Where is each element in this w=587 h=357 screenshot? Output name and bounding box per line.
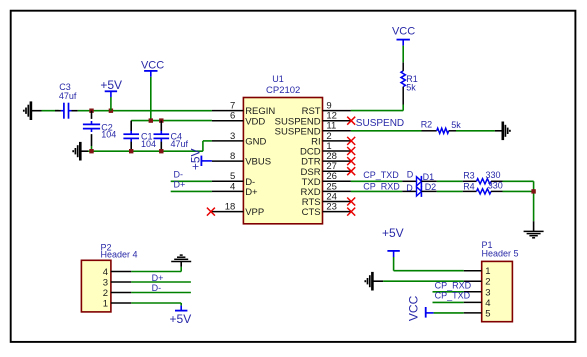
net label D+ (to IC) bbox=[174, 180, 186, 190]
svg-text:23: 23 bbox=[326, 202, 337, 213]
svg-text:8: 8 bbox=[230, 151, 235, 162]
node junction C2 bottom bbox=[89, 149, 93, 153]
no-connect X on pin 18 VPP bbox=[207, 208, 215, 216]
svg-text:104: 104 bbox=[141, 139, 156, 149]
svg-text:CP2102: CP2102 bbox=[266, 85, 300, 96]
svg-text:VDD: VDD bbox=[245, 116, 265, 127]
svg-text:1: 1 bbox=[485, 266, 490, 277]
pin 25 RXD (right) bbox=[301, 181, 351, 198]
svg-text:2: 2 bbox=[485, 277, 490, 288]
ground (right of R2) bbox=[503, 122, 510, 141]
svg-text:VBUS: VBUS bbox=[245, 157, 271, 168]
svg-text:D-: D- bbox=[152, 283, 162, 293]
net label D- (to IC) bbox=[174, 169, 184, 179]
net label CP_TXD (at IC) bbox=[363, 170, 399, 180]
svg-text:5: 5 bbox=[485, 308, 490, 319]
svg-text:3: 3 bbox=[103, 278, 108, 289]
pin 26 TXD (right) bbox=[302, 171, 351, 188]
svg-text:330: 330 bbox=[486, 170, 501, 180]
pin 1 of P1 bbox=[464, 266, 491, 277]
svg-text:VCC: VCC bbox=[407, 295, 421, 321]
node junction C1 bottom bbox=[129, 149, 133, 153]
svg-text:CP_RXD: CP_RXD bbox=[363, 181, 400, 191]
svg-text:D2: D2 bbox=[425, 182, 437, 192]
diode D1 bbox=[407, 170, 434, 187]
pin 9 RST (right) bbox=[302, 101, 351, 118]
pin 24 RTS (right) bbox=[302, 191, 351, 208]
svg-text:3: 3 bbox=[230, 131, 235, 142]
svg-text:2: 2 bbox=[103, 288, 108, 299]
wire RXD to D2 bbox=[351, 190, 417, 192]
net label D- (P2) bbox=[152, 283, 162, 293]
pin 4 of P1 bbox=[464, 298, 491, 309]
svg-text:5k: 5k bbox=[451, 120, 461, 130]
pin 3 GND (left) bbox=[212, 131, 267, 148]
wire GND rail bbox=[88, 141, 212, 151]
pin 7 REGIN (left) bbox=[212, 101, 276, 118]
wire D1 to R3 bbox=[421, 180, 462, 182]
svg-text:R2: R2 bbox=[421, 119, 433, 129]
svg-text:104: 104 bbox=[101, 130, 116, 140]
wire C3 to +5V rail junction bbox=[72, 110, 212, 112]
node junction C4 top bbox=[159, 118, 163, 122]
wire P1 pin5 to VCC bbox=[434, 312, 464, 314]
power +5V (below P2, inverted) bbox=[170, 311, 192, 326]
no-connect X on right pin row 4 bbox=[347, 147, 355, 155]
svg-text:5k: 5k bbox=[406, 82, 416, 92]
svg-text:47uf: 47uf bbox=[59, 91, 77, 101]
no-connect X on right pin row 3 bbox=[347, 137, 355, 145]
wire VDD rail bbox=[131, 120, 212, 122]
svg-text:D+: D+ bbox=[174, 180, 186, 190]
svg-text:R3: R3 bbox=[463, 171, 475, 181]
net label CP_TXD (P1) bbox=[435, 291, 471, 301]
svg-text:VCC: VCC bbox=[392, 25, 415, 37]
pin 3 of P2 bbox=[103, 278, 132, 289]
pin 18 VPP (left) bbox=[212, 202, 264, 219]
wire +5V rail to C3 bbox=[42, 110, 61, 112]
svg-text:D-: D- bbox=[174, 169, 184, 179]
svg-text:U1: U1 bbox=[272, 74, 284, 84]
net label SUSPEND bbox=[356, 118, 404, 129]
power +5V (rotated, at VBUS) bbox=[189, 148, 212, 170]
pin 2 of P1 bbox=[464, 277, 491, 288]
capacitor C4 bbox=[154, 121, 189, 152]
pin 3 of P1 bbox=[464, 287, 491, 298]
wire P1 pin3 CP_RXD bbox=[433, 291, 464, 293]
no-connect X on right pin row 1 bbox=[347, 117, 355, 125]
pin 1 of P2 bbox=[103, 299, 132, 310]
svg-text:D: D bbox=[407, 170, 414, 180]
ground (left of C3) bbox=[24, 101, 42, 120]
capacitor C1 bbox=[123, 121, 156, 152]
svg-text:+5V: +5V bbox=[382, 226, 404, 240]
node junction C4 bottom bbox=[159, 149, 163, 153]
svg-text:18: 18 bbox=[225, 202, 236, 213]
no-connect X on right pin row 5 bbox=[347, 157, 355, 165]
svg-text:330: 330 bbox=[488, 181, 503, 191]
resistor R3 330 bbox=[463, 170, 503, 184]
svg-text:D1: D1 bbox=[423, 172, 435, 182]
op-amp-like IC U1 CP2102 body bbox=[243, 74, 322, 224]
capacitor C2 bbox=[83, 111, 116, 152]
wire P1 pin2 to ground bbox=[383, 280, 464, 282]
pin 2 RI (right) bbox=[311, 131, 351, 148]
ground (bottom right of R4) bbox=[524, 231, 544, 237]
pin 12 SUSPEND (right) bbox=[275, 111, 351, 128]
svg-text:R4: R4 bbox=[463, 181, 475, 191]
wire P2 pin2 D- bbox=[131, 292, 191, 294]
wire P2 pin4 to ground bbox=[131, 262, 181, 272]
pin 27 DSR (right) bbox=[301, 161, 351, 178]
svg-text:4: 4 bbox=[485, 298, 490, 309]
pin 6 VDD (left) bbox=[212, 111, 265, 128]
diode D2 bbox=[406, 182, 436, 197]
pin 4 of P2 bbox=[103, 267, 132, 278]
svg-text:+5V: +5V bbox=[100, 78, 122, 92]
pin 23 CTS (right) bbox=[302, 202, 351, 219]
svg-text:VCC: VCC bbox=[141, 60, 164, 72]
wire R2 to ground bbox=[456, 130, 503, 132]
capacitor C3 bbox=[59, 82, 77, 119]
power +5V (above P1) bbox=[382, 226, 404, 257]
node junction +5V stub bbox=[109, 109, 113, 113]
svg-text:CP_TXD: CP_TXD bbox=[435, 291, 471, 301]
svg-text:Header 4: Header 4 bbox=[101, 250, 138, 260]
resistor R1 5k bbox=[401, 62, 418, 104]
svg-text:47uf: 47uf bbox=[171, 139, 189, 149]
pin 4 D+ (left) bbox=[212, 181, 258, 198]
pin 28 DTR (right) bbox=[301, 151, 351, 168]
wire RST to R1 bbox=[351, 105, 403, 111]
wire P2 pin1 to +5V bbox=[131, 303, 181, 311]
pin 1 DCD (right) bbox=[300, 141, 351, 158]
power VCC (above R1) bbox=[392, 25, 415, 62]
svg-text:D: D bbox=[406, 183, 413, 193]
wire P1 pin4 CP_TXD bbox=[433, 301, 464, 303]
node junction C2 top bbox=[89, 109, 93, 113]
svg-text:4: 4 bbox=[230, 181, 235, 192]
svg-text:SUSPEND: SUSPEND bbox=[356, 118, 404, 129]
svg-text:GND: GND bbox=[245, 137, 266, 148]
wire D2 to R4 bbox=[421, 190, 462, 192]
pin 5 D- (left) bbox=[212, 171, 255, 188]
wire P2 pin3 D+ bbox=[131, 281, 191, 283]
pin 8 VBUS (left) bbox=[212, 151, 271, 168]
node junction R4/vertical bbox=[531, 189, 535, 193]
svg-text:6: 6 bbox=[230, 111, 235, 122]
ground (left, lower) bbox=[73, 142, 88, 161]
net label CP_RXD (P1) bbox=[435, 281, 472, 291]
power VCC (top center) bbox=[141, 60, 164, 121]
connector P1 Header 5 body bbox=[482, 240, 519, 321]
net label D+ (P2) bbox=[152, 273, 164, 283]
svg-text:4: 4 bbox=[103, 267, 108, 278]
ground (above P2) bbox=[171, 255, 191, 261]
svg-text:CP_TXD: CP_TXD bbox=[363, 170, 399, 180]
ground (left of P1 pin2) bbox=[365, 272, 383, 291]
resistor R2 5k bbox=[421, 119, 462, 133]
svg-text:Header 5: Header 5 bbox=[482, 249, 519, 259]
svg-text:3: 3 bbox=[485, 287, 490, 298]
wire TXD to D1 bbox=[351, 180, 417, 182]
svg-text:D+: D+ bbox=[245, 187, 258, 198]
pin 2 of P2 bbox=[103, 288, 132, 299]
wire SUSPEND net bbox=[351, 130, 422, 132]
wire R3/R4 to ground (right) bbox=[503, 181, 534, 231]
pin 11 SUSPEND (right) bbox=[275, 121, 351, 138]
no-connect X on right pin row 10 bbox=[347, 208, 355, 216]
net label CP_RXD (at IC) bbox=[363, 181, 400, 191]
node junction VCC/VDD bbox=[149, 118, 153, 122]
power VCC (rotated, at P1 pin5) bbox=[407, 295, 434, 321]
wire D- bbox=[171, 180, 212, 182]
wire P1 pin1 to +5V bbox=[394, 257, 464, 271]
connector P2 Header 4 body bbox=[81, 243, 137, 312]
svg-text:CTS: CTS bbox=[302, 207, 321, 218]
svg-text:CP_RXD: CP_RXD bbox=[435, 281, 472, 291]
power +5V (top left) bbox=[100, 78, 122, 111]
svg-text:+5V: +5V bbox=[170, 312, 192, 326]
no-connect X on right pin row 9 bbox=[347, 198, 355, 206]
svg-text:VPP: VPP bbox=[245, 207, 264, 218]
resistor R4 330 bbox=[463, 181, 503, 194]
no-connect X on right pin row 6 bbox=[347, 167, 355, 175]
wire D+ bbox=[171, 190, 212, 192]
svg-text:1: 1 bbox=[103, 299, 108, 310]
pin 5 of P1 bbox=[464, 308, 491, 319]
